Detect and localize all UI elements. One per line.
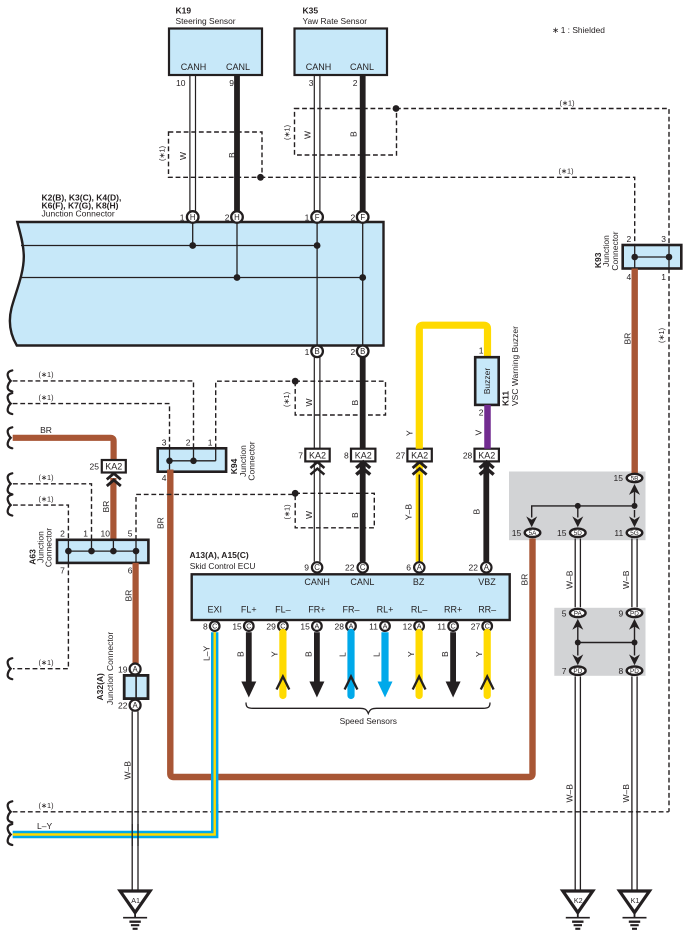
svg-text:12: 12	[403, 621, 413, 631]
svg-text:B: B	[472, 509, 482, 515]
wire L RL+ with down arrow	[381, 632, 388, 683]
svg-text:CANL: CANL	[350, 62, 374, 72]
svg-text:(∗1): (∗1)	[38, 801, 53, 810]
junction connector K94 box	[158, 448, 226, 471]
CANL bus wire inside band	[20, 277, 363, 279]
shield S3 drain node	[292, 378, 299, 385]
svg-text:22: 22	[345, 563, 355, 573]
shield S2 drain node	[393, 105, 400, 112]
svg-text:19: 19	[118, 664, 128, 674]
wire break symbol	[8, 495, 13, 516]
svg-text:PA: PA	[574, 610, 583, 617]
wire B 8 KA2 to ECU CANL	[360, 461, 366, 561]
svg-text:1: 1	[305, 213, 310, 223]
svg-text:BR: BR	[40, 425, 52, 435]
svg-text:KA2: KA2	[478, 451, 495, 461]
node CANL junction	[234, 274, 241, 281]
svg-text:KA2: KA2	[411, 451, 428, 461]
speed sensors brace	[246, 703, 490, 714]
svg-text:CANH: CANH	[181, 62, 207, 72]
svg-text:C: C	[360, 563, 366, 572]
svg-text:11: 11	[369, 621, 378, 631]
wire W-B 8PD to ground K1	[632, 676, 637, 890]
svg-text:K1: K1	[631, 896, 640, 905]
svg-text:Y: Y	[406, 651, 416, 657]
svg-text:Connector: Connector	[247, 441, 257, 480]
svg-text:Yaw Rate Sensor: Yaw Rate Sensor	[303, 16, 368, 26]
shield S4 drain node	[292, 490, 299, 497]
wire Y 27 KA2 up and over to buzzer pin 1	[419, 325, 487, 449]
svg-text:10: 10	[176, 78, 186, 88]
svg-text:2: 2	[186, 437, 191, 447]
svg-text:KA2: KA2	[309, 451, 326, 461]
svg-text:RL–: RL–	[411, 605, 428, 615]
svg-text:(∗1): (∗1)	[282, 392, 291, 407]
wire W-B 7PD to ground K2	[575, 676, 580, 890]
svg-text:CANL: CANL	[226, 62, 250, 72]
svg-text:B: B	[227, 152, 237, 158]
shield dashed wire A63 pin 5 to S4 drain node	[136, 494, 295, 539]
svg-text:1: 1	[479, 346, 484, 356]
svg-text:V: V	[474, 430, 484, 436]
A63 nodes	[65, 548, 72, 555]
svg-text:5B: 5B	[631, 475, 639, 482]
svg-text:RR+: RR+	[444, 605, 462, 615]
svg-text:B: B	[440, 651, 450, 657]
svg-text:W–B: W–B	[565, 570, 575, 589]
svg-text:CANH: CANH	[304, 577, 330, 587]
shield drain dashed wire S2 to right edge and down to K93 pin 3	[396, 109, 669, 246]
svg-text:5A: 5A	[529, 530, 538, 537]
skid control ECU box	[192, 574, 510, 620]
wire L FR- with up chevron	[347, 632, 354, 695]
junction connector K93 box	[623, 245, 682, 269]
svg-text:7: 7	[562, 666, 567, 676]
svg-text:(∗1): (∗1)	[657, 328, 666, 343]
svg-text:(∗1): (∗1)	[559, 99, 574, 108]
wire V buzzer pin 2 to 28 KA2	[484, 405, 491, 449]
wire B CANL band 2B to 8 KA2	[360, 357, 366, 474]
connector arrow 7	[310, 462, 324, 475]
svg-text:B: B	[350, 512, 360, 518]
svg-text:9: 9	[618, 608, 623, 618]
dashed shield wire K93 pin 1 down right side	[668, 269, 670, 812]
wire B RR+ with down arrow	[450, 632, 456, 683]
arrow into 5A	[526, 516, 537, 527]
CANH bus wire inside band	[21, 245, 317, 247]
svg-text:4: 4	[162, 473, 167, 483]
svg-text:1: 1	[661, 272, 666, 282]
svg-text:L: L	[372, 652, 382, 657]
svg-text:(∗1): (∗1)	[38, 393, 53, 402]
shield dashed line to K94 pin 2	[13, 381, 194, 448]
wire BR K93 pin 4 to 5B	[632, 269, 638, 474]
svg-text:CANL: CANL	[350, 577, 374, 587]
svg-text:VBZ: VBZ	[478, 577, 496, 587]
shield dashed wire K94 pin 1 to S3 drain node	[216, 381, 296, 448]
wire W yaw CANH (double line)	[314, 75, 320, 211]
svg-text:(∗1): (∗1)	[158, 146, 167, 161]
junction connector band K2/K3/K4/K6/K7/K8	[10, 222, 384, 346]
arrows into PD(7) and PD(8)	[572, 654, 583, 665]
wire Y RR- with up chevron	[484, 632, 491, 695]
svg-text:FR–: FR–	[342, 605, 359, 615]
svg-text:L: L	[338, 652, 348, 657]
svg-text:B: B	[350, 400, 360, 406]
svg-text:2: 2	[626, 234, 631, 244]
svg-text:27: 27	[396, 450, 406, 460]
wire break symbol	[8, 393, 13, 414]
wire break symbol	[8, 370, 13, 391]
svg-text:B: B	[236, 651, 246, 657]
wire BR K94 pin 4 big loop to 5A	[170, 470, 532, 778]
svg-text:27: 27	[471, 621, 481, 631]
svg-text:C: C	[212, 622, 217, 631]
svg-text:(∗1): (∗1)	[558, 167, 573, 176]
wire B FR+ with down arrow	[314, 632, 320, 683]
svg-text:BR: BR	[101, 501, 111, 513]
svg-text:2: 2	[350, 347, 355, 357]
junction connector A63 box	[57, 540, 148, 563]
svg-text:A1: A1	[131, 896, 140, 905]
K94 internal bus	[170, 460, 216, 462]
wire W-B A32 pin 22 to ground A1	[132, 711, 138, 891]
pin 2H stub wire	[236, 222, 238, 278]
svg-text:22: 22	[469, 563, 479, 573]
svg-text:Connector: Connector	[44, 528, 54, 567]
shield dashed line bottom	[13, 811, 669, 813]
svg-text:Junction Connector: Junction Connector	[42, 209, 115, 219]
connector arrow 25	[107, 473, 121, 486]
svg-text:FL+: FL+	[241, 605, 257, 615]
svg-text:A: A	[417, 563, 423, 572]
svg-text:9: 9	[229, 78, 234, 88]
svg-text:W–B: W–B	[565, 784, 575, 803]
svg-text:4: 4	[626, 272, 631, 282]
wire L-Y over dashed crossing (patch)	[211, 804, 218, 820]
svg-text:28: 28	[463, 450, 473, 460]
svg-text:6: 6	[128, 566, 133, 576]
svg-text:W: W	[304, 398, 314, 406]
junction connector A32(A) box	[124, 675, 148, 698]
svg-text:H: H	[190, 213, 196, 222]
svg-text:B: B	[349, 131, 359, 137]
svg-text:3: 3	[162, 437, 167, 447]
svg-text:22: 22	[118, 701, 128, 711]
svg-text:RR–: RR–	[478, 605, 496, 615]
svg-text:C: C	[314, 563, 320, 572]
svg-text:B: B	[314, 347, 319, 356]
svg-text:1: 1	[180, 213, 185, 223]
arrows into PA and PD(9)	[572, 619, 583, 630]
svg-text:(∗1): (∗1)	[38, 494, 53, 503]
svg-text:5D: 5D	[574, 530, 583, 537]
svg-text:15: 15	[300, 621, 310, 631]
K94 node pin2	[190, 458, 197, 465]
pin 1F-1B through wire	[316, 222, 318, 346]
wire break symbol (L-Y)	[8, 824, 13, 845]
svg-text:2: 2	[225, 213, 230, 223]
svg-text:PD: PD	[630, 668, 639, 675]
steering sensor K19 box	[169, 29, 262, 76]
A63 internal bus	[68, 550, 136, 552]
svg-text:2: 2	[350, 213, 355, 223]
svg-text:Y: Y	[474, 651, 484, 657]
svg-text:11: 11	[437, 621, 446, 631]
shield box S1 (steering wires, dashed)	[169, 132, 263, 177]
wire Y-B 27 KA2 to ECU BZ	[416, 461, 423, 561]
svg-text:8: 8	[618, 666, 623, 676]
svg-text:10: 10	[101, 528, 111, 538]
svg-text:2: 2	[60, 528, 65, 538]
svg-text:5: 5	[128, 528, 133, 538]
svg-text:A13(A), A15(C): A13(A), A15(C)	[190, 550, 249, 560]
svg-text:29: 29	[266, 621, 276, 631]
svg-text:BR: BR	[156, 517, 166, 529]
wire W-B 5G to PD	[632, 539, 637, 608]
svg-text:1: 1	[305, 347, 310, 357]
node CANH junction	[189, 242, 196, 249]
wire B FL+ with down arrow	[246, 632, 252, 683]
VSC warning buzzer K11 box	[475, 357, 499, 405]
svg-text:W–B: W–B	[123, 761, 133, 780]
svg-text:2: 2	[353, 78, 358, 88]
svg-text:A: A	[132, 665, 138, 674]
svg-text:2: 2	[479, 407, 484, 417]
wire break symbol	[8, 658, 13, 679]
wire W steering CANH (double line)	[190, 75, 196, 211]
connector arrow 8	[356, 462, 370, 475]
arrow into 5B and bus	[634, 490, 636, 506]
svg-text:W: W	[304, 511, 314, 519]
wire B steering CANL	[234, 75, 240, 211]
svg-text:C: C	[246, 622, 251, 631]
bus wire 5A-5D-5G	[532, 506, 635, 518]
shield box S3 (dashed)	[295, 381, 385, 415]
svg-text:KA2: KA2	[105, 462, 122, 472]
svg-text:11: 11	[614, 528, 623, 538]
svg-text:28: 28	[335, 621, 345, 631]
svg-text:(∗1): (∗1)	[38, 473, 53, 482]
shield dashed line to A63 pin 2	[13, 505, 68, 540]
svg-text:K11: K11	[501, 391, 511, 406]
wire B yaw CANL	[360, 75, 366, 211]
arrow into 5D	[572, 516, 583, 527]
wire break symbol	[8, 801, 13, 822]
shield S1 drain node	[257, 174, 264, 181]
bus wire PA/PD	[577, 625, 579, 643]
svg-text:K19: K19	[176, 6, 192, 16]
svg-text:K2: K2	[574, 896, 583, 905]
svg-text:L–Y: L–Y	[37, 821, 52, 831]
svg-text:Y: Y	[270, 651, 280, 657]
svg-text:15: 15	[512, 528, 522, 538]
svg-text:(∗1): (∗1)	[283, 125, 292, 140]
svg-text:6: 6	[406, 563, 411, 573]
svg-text:8: 8	[203, 621, 208, 631]
svg-text:BZ: BZ	[413, 577, 425, 587]
svg-text:F: F	[315, 213, 320, 222]
svg-text:FR+: FR+	[308, 605, 325, 615]
svg-text:5G: 5G	[630, 530, 639, 537]
wire W-B over L-Y crossing (patch)	[132, 824, 138, 846]
svg-text:15: 15	[557, 528, 567, 538]
wire W CANH band 1B to 7 KA2	[314, 357, 320, 448]
K93 internal bus	[635, 256, 669, 258]
svg-text:A: A	[132, 701, 138, 710]
svg-text:CANH: CANH	[306, 62, 332, 72]
svg-text:Speed Sensors: Speed Sensors	[340, 716, 397, 726]
K93 nodes	[631, 254, 638, 261]
svg-text:(∗1): (∗1)	[38, 370, 53, 379]
svg-text:PD: PD	[573, 668, 582, 675]
svg-text:B: B	[360, 347, 365, 356]
svg-text:∗ 1 : Shielded: ∗ 1 : Shielded	[552, 25, 605, 35]
svg-text:25: 25	[90, 462, 100, 472]
svg-text:Junction Connector: Junction Connector	[105, 632, 115, 705]
svg-text:BR: BR	[623, 333, 633, 345]
svg-text:A: A	[383, 622, 388, 631]
wire W 7 KA2 to ECU CANH	[314, 461, 320, 561]
svg-text:8: 8	[344, 450, 349, 460]
svg-text:B: B	[304, 651, 314, 657]
pin 2F-2B through wire	[362, 222, 364, 346]
svg-text:W–B: W–B	[621, 570, 631, 589]
svg-text:F: F	[360, 213, 365, 222]
svg-text:Y: Y	[405, 430, 415, 436]
wire Y FL- with up chevron	[279, 632, 286, 695]
svg-text:Connector: Connector	[610, 231, 620, 270]
svg-text:RL+: RL+	[377, 605, 394, 615]
svg-text:7: 7	[298, 450, 303, 460]
shield drain dashed wire S1 to K93 pin 2	[261, 177, 635, 245]
svg-text:Steering Sensor: Steering Sensor	[176, 16, 236, 26]
svg-text:W–B: W–B	[621, 784, 631, 803]
wire BR 25 KA2 to A63 pin 10	[110, 478, 116, 540]
ground K2	[563, 891, 593, 913]
svg-text:FL–: FL–	[275, 605, 291, 615]
shield box S2 (yaw wires, dashed)	[295, 109, 397, 156]
svg-text:W: W	[178, 152, 188, 160]
shield box S4 (dashed)	[295, 493, 374, 528]
wire break symbol	[8, 473, 13, 494]
svg-text:Buzzer: Buzzer	[482, 368, 492, 395]
svg-text:7: 7	[60, 566, 65, 576]
K94 node pin3	[166, 458, 173, 465]
wire break symbol	[8, 427, 13, 448]
svg-text:KA2: KA2	[355, 451, 372, 461]
svg-text:1: 1	[83, 528, 88, 538]
svg-text:15: 15	[232, 621, 242, 631]
svg-text:K35: K35	[303, 6, 319, 16]
svg-text:PD: PD	[630, 610, 639, 617]
svg-text:(∗1): (∗1)	[283, 504, 292, 519]
svg-text:BR: BR	[520, 574, 530, 586]
yaw rate sensor K35 box	[295, 29, 388, 76]
connector arrow 27	[413, 462, 427, 475]
wire B 28 KA2 to ECU VBZ	[483, 461, 489, 561]
svg-text:A: A	[484, 563, 490, 572]
svg-text:Skid Control ECU: Skid Control ECU	[190, 561, 256, 571]
connector arrow 28	[480, 462, 494, 475]
svg-text:(∗1): (∗1)	[38, 658, 53, 667]
svg-text:EXI: EXI	[207, 605, 222, 615]
svg-text:VSC Warning Buzzer: VSC Warning Buzzer	[510, 326, 520, 406]
svg-text:5: 5	[562, 608, 567, 618]
shield dashed line A63 pin 7 to left	[13, 563, 68, 669]
svg-text:Y–B: Y–B	[404, 504, 414, 520]
gray zone box 2 (PA/PD connector area)	[554, 608, 645, 676]
ground A1	[120, 891, 150, 913]
shield dashed line to K94 pin 3	[13, 404, 170, 449]
svg-text:3: 3	[309, 78, 314, 88]
svg-text:BR: BR	[124, 590, 134, 602]
svg-text:W: W	[303, 131, 313, 139]
shield dashed line to A63 pin 1	[13, 484, 92, 540]
svg-text:H: H	[234, 213, 240, 222]
pin 1H stub wire	[192, 222, 194, 246]
svg-text:A: A	[315, 622, 320, 631]
wire BR A63 pin 6 to A32 pin 19	[133, 563, 139, 663]
ground K1	[620, 891, 650, 913]
gray zone box 1 (5A/5B/5D/5G connector area)	[509, 472, 646, 541]
svg-text:9: 9	[304, 563, 309, 573]
svg-text:A32(A): A32(A)	[95, 673, 105, 701]
wire Y RL- with up chevron	[416, 632, 423, 695]
svg-text:1: 1	[208, 437, 213, 447]
svg-text:15: 15	[614, 473, 624, 483]
wire W-B 5D to PA	[575, 539, 580, 608]
svg-text:3: 3	[661, 234, 666, 244]
arrow into 5G	[629, 516, 640, 527]
svg-text:C: C	[450, 622, 455, 631]
svg-text:L–Y: L–Y	[201, 646, 211, 661]
wire L-Y EXI to lower left	[13, 632, 215, 834]
